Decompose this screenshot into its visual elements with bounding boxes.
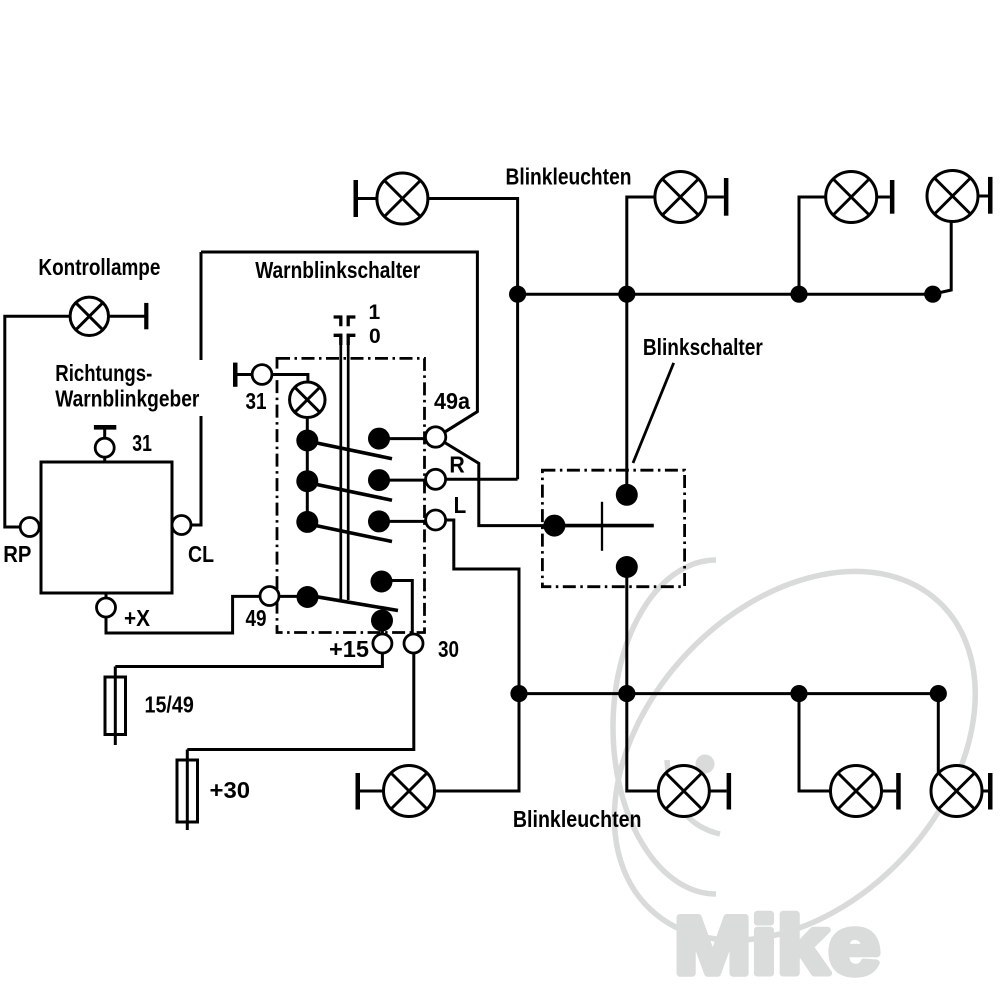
- svg-text:Warnblinkschalter: Warnblinkschalter: [255, 257, 420, 283]
- svg-text:Mike: Mike: [674, 901, 880, 992]
- svg-text:R: R: [449, 451, 465, 477]
- svg-text:1: 1: [369, 301, 381, 324]
- svg-text:Blinkleuchten: Blinkleuchten: [513, 806, 642, 832]
- svg-text:Warnblinkgeber: Warnblinkgeber: [55, 385, 199, 411]
- svg-text:CL: CL: [188, 541, 214, 567]
- svg-text:49: 49: [246, 605, 267, 631]
- svg-text:Blinkleuchten: Blinkleuchten: [506, 164, 632, 190]
- svg-text:Kontrollampe: Kontrollampe: [38, 254, 160, 280]
- svg-text:30: 30: [438, 636, 459, 662]
- svg-text:Richtungs-: Richtungs-: [55, 360, 152, 386]
- svg-text:31: 31: [132, 430, 152, 456]
- svg-text:31: 31: [246, 388, 267, 414]
- svg-text:RP: RP: [3, 541, 31, 567]
- svg-text:0: 0: [369, 325, 381, 348]
- svg-text:Blinkschalter: Blinkschalter: [643, 334, 763, 360]
- svg-text:+30: +30: [210, 777, 251, 803]
- svg-text:49a: 49a: [434, 388, 470, 414]
- svg-text:+15: +15: [329, 636, 369, 662]
- svg-text:L: L: [454, 492, 467, 518]
- svg-text:15/49: 15/49: [145, 692, 194, 718]
- svg-text:+X: +X: [124, 605, 151, 631]
